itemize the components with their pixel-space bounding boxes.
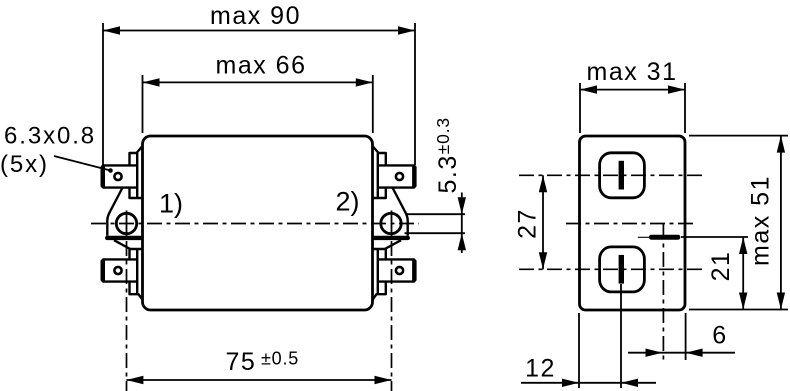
svg-text:6: 6 bbox=[712, 322, 727, 350]
terminal tab lower left bbox=[102, 259, 138, 281]
left hole centerline vertical bbox=[126, 211, 128, 237]
side body outline bbox=[580, 136, 686, 310]
svg-text:max 51: max 51 bbox=[747, 175, 775, 266]
dimension 21 bbox=[681, 237, 748, 310]
upper terminal blade bbox=[619, 161, 624, 190]
right lower end plate bbox=[372, 249, 386, 301]
side main centerline bbox=[566, 223, 697, 225]
side flange edge bar bbox=[649, 235, 680, 240]
label 6.3x0.8 (5x) bbox=[0, 123, 96, 179]
dimension max 90 bbox=[103, 2, 415, 165]
svg-text:6.3x0.8: 6.3x0.8 bbox=[4, 123, 96, 150]
lower terminal centerline bbox=[519, 268, 703, 270]
body outline bbox=[143, 136, 373, 310]
left mounting bracket bbox=[105, 188, 143, 250]
dimension max 66 bbox=[143, 52, 373, 134]
dimension max 31 bbox=[580, 58, 685, 133]
svg-text:27: 27 bbox=[514, 208, 542, 239]
svg-text:75: 75 bbox=[226, 348, 257, 376]
right upper end plate bbox=[373, 146, 386, 198]
leader line bbox=[54, 156, 113, 173]
dimension 27 bbox=[514, 175, 548, 269]
dimension 75 +-0.5 bbox=[126, 348, 391, 384]
svg-text:1): 1) bbox=[159, 189, 183, 219]
svg-text:(5x): (5x) bbox=[0, 151, 49, 178]
svg-text:max 66: max 66 bbox=[216, 52, 307, 80]
terminal tab upper right bbox=[378, 165, 416, 187]
svg-text:2): 2) bbox=[336, 187, 360, 217]
tab hole lower right bbox=[396, 267, 403, 274]
svg-text:±0.5: ±0.5 bbox=[261, 349, 299, 369]
tab hole upper left bbox=[114, 173, 121, 180]
main centerline bbox=[91, 223, 419, 225]
upper terminal centerline bbox=[519, 174, 703, 176]
terminal tab upper left bbox=[102, 165, 138, 187]
svg-text:21: 21 bbox=[707, 251, 735, 282]
dimension 6 bbox=[628, 313, 735, 360]
dimension 5.3 +-0.3 bbox=[405, 117, 467, 253]
svg-text:max 90: max 90 bbox=[210, 2, 301, 30]
left lower end plate bbox=[130, 249, 144, 301]
svg-text:max 31: max 31 bbox=[587, 58, 678, 86]
lower terminal blade bbox=[619, 255, 624, 284]
right mounting bracket bbox=[372, 188, 410, 250]
left upper end plate bbox=[130, 146, 143, 198]
upper terminal recess bbox=[600, 153, 645, 198]
right hole centerline vertical bbox=[391, 211, 393, 237]
terminal tab lower right bbox=[378, 259, 416, 281]
flange hole plane centerline bbox=[662, 224, 664, 360]
tab hole upper right bbox=[396, 173, 403, 180]
dimension max 51 bbox=[689, 136, 788, 310]
left mounting hole bbox=[116, 213, 136, 233]
dimension 12 bbox=[521, 284, 656, 388]
right mounting hole bbox=[381, 213, 401, 233]
svg-text:12: 12 bbox=[525, 355, 556, 383]
tab hole lower left bbox=[114, 267, 121, 274]
lower terminal recess bbox=[600, 247, 645, 292]
